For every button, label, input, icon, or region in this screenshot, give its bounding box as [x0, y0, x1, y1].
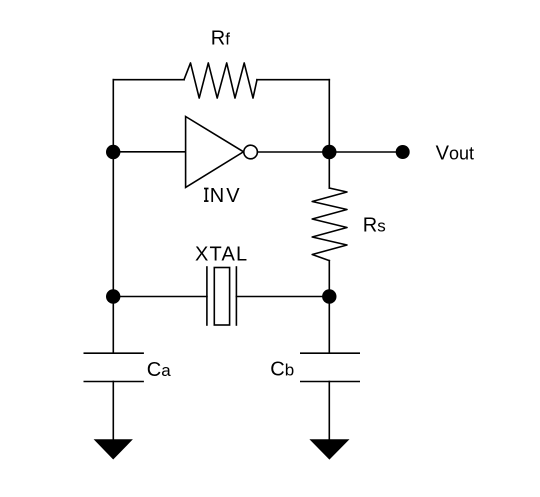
output node junction dot — [322, 145, 336, 159]
svg-text:Rs: Rs — [363, 215, 386, 237]
inverter output bubble — [244, 145, 258, 159]
resistor R_s — [312, 188, 347, 261]
inverter U1 INV triangle — [186, 117, 244, 188]
wire inverter input — [113, 151, 185, 153]
node C junction dot (crystal right) — [322, 289, 336, 303]
crystal XTAL body rectangle — [214, 268, 229, 326]
wire inverter output to Vout — [257, 151, 402, 153]
wire left vertical (top corner down through node A and node B to Ca) — [112, 80, 114, 354]
wire Rf to top-right corner — [257, 79, 329, 81]
Vout terminal dot — [396, 145, 410, 159]
resistor R_f — [184, 63, 257, 98]
wire Rs to node C — [328, 261, 330, 354]
wire node B to crystal — [113, 296, 207, 298]
node B junction dot (crystal left) — [106, 289, 120, 303]
svg-text:Vout: Vout — [436, 143, 474, 165]
ground (left, under Ca) — [95, 440, 132, 459]
wire top-left horizontal (node A to Rf) — [113, 79, 184, 81]
crystal XTAL right plate — [235, 267, 237, 325]
capacitor C_a top plate — [84, 352, 143, 354]
svg-text:Cb: Cb — [270, 359, 294, 381]
wire Ca to ground — [112, 382, 114, 440]
svg-text:Ca: Ca — [147, 359, 171, 381]
svg-text:Rf: Rf — [211, 28, 230, 50]
node A junction dot (inverter input) — [106, 145, 120, 159]
capacitor C_a bottom plate — [84, 381, 143, 383]
svg-text:XTAL: XTAL — [195, 243, 248, 265]
wire crystal to node C — [236, 296, 329, 298]
capacitor C_b top plate — [301, 352, 359, 354]
ground (right, under Cb) — [311, 440, 349, 459]
wire output node down to Rs — [328, 152, 330, 188]
svg-text:NV: NV — [210, 185, 242, 207]
label INV (I drawn with serifs) — [204, 189, 209, 202]
wire Cb to ground — [328, 382, 330, 440]
capacitor C_b bottom plate — [301, 381, 359, 383]
wire right vertical (top corner down to output node) — [328, 80, 330, 152]
crystal XTAL left plate — [206, 267, 208, 325]
